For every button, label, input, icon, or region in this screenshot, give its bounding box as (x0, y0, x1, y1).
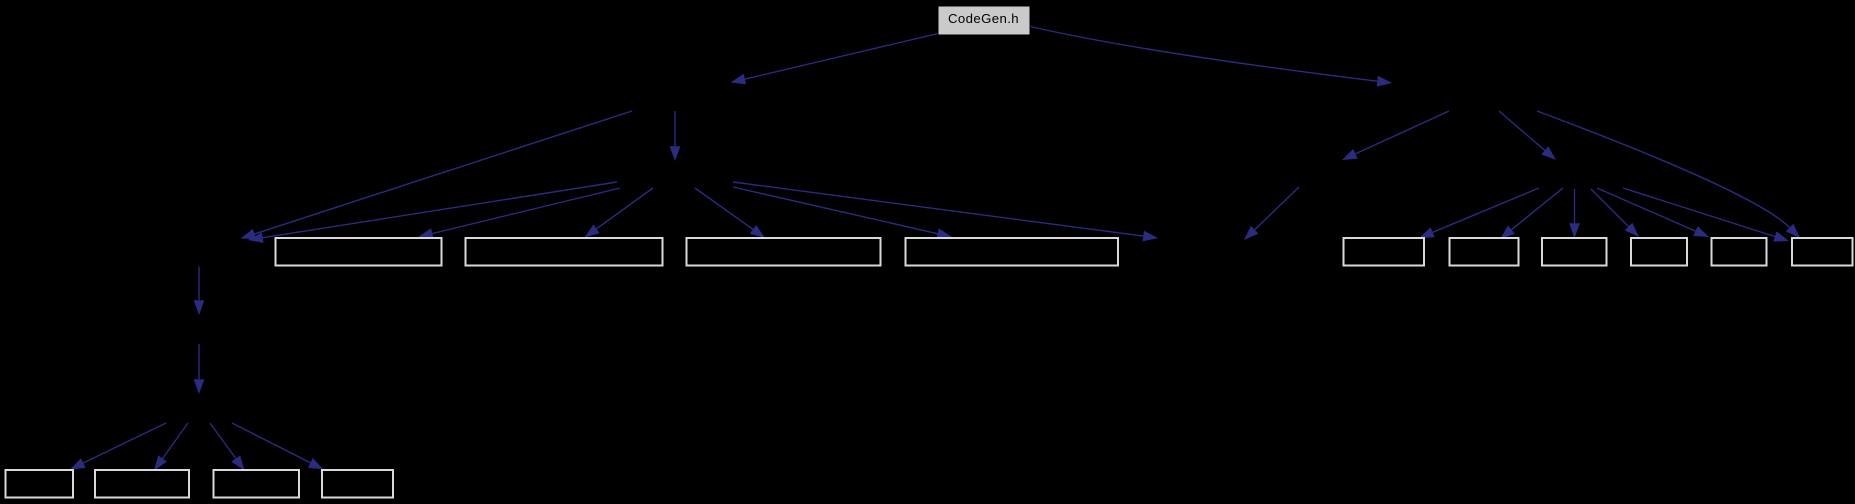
edge R1 -> M2 (1499, 111, 1556, 160)
box3 (mid row) (687, 238, 881, 266)
boxA (bottom row) (6, 470, 74, 498)
edge M2 -> boxR2 (1500, 188, 1563, 239)
boxR1 (right row) (1344, 238, 1425, 266)
edge L4 -> boxC (210, 423, 245, 471)
edge L3 -> L4 (194, 344, 205, 394)
edge M2 -> boxR5 (1597, 188, 1709, 237)
edge L4 -> boxA (70, 423, 166, 470)
edge L2 -> box3 (695, 188, 765, 238)
edge M2 -> boxR3 (1569, 189, 1580, 238)
edge L2 -> box4 (733, 187, 952, 239)
boxR4 (right row) (1631, 238, 1687, 266)
edge L1 -> node4 (241, 111, 633, 239)
edge R1 -> boxR6 (1537, 111, 1800, 238)
svg-text:CodeGen.h: CodeGen.h (948, 11, 1019, 26)
edge M2 -> boxR4 (1591, 189, 1639, 237)
edge M2 -> boxR6 (1623, 188, 1789, 242)
boxR3 (right row) (1542, 238, 1607, 266)
edge L2 -> node5 (733, 182, 1158, 241)
boxR5 (right row) (1712, 238, 1767, 266)
edge L2 -> node4 (248, 182, 617, 243)
box4 (mid row) (906, 238, 1119, 266)
edge L2 -> box2 (585, 188, 654, 238)
edge L4 -> boxD (232, 423, 324, 470)
edge CodeGen.h -> node R1 (1031, 27, 1393, 87)
boxD (bottom row) (322, 470, 393, 498)
box2 (mid row) (466, 238, 663, 266)
edge M1 -> node5 (1244, 187, 1299, 240)
node CodeGen.h (root) (938, 6, 1030, 35)
boxR6 (right row) (1792, 238, 1853, 266)
boxC (bottom row) (214, 470, 300, 498)
edge CodeGen.h -> node L1 (731, 34, 939, 85)
edge L2 -> box1 (418, 188, 620, 239)
edge node4 -> L3 (194, 267, 205, 316)
box1 (mid row) (276, 238, 442, 266)
edge M2 -> boxR1 (1419, 188, 1539, 238)
edge L1 -> L2 (670, 111, 681, 161)
boxR2 (right row) (1450, 238, 1519, 266)
boxB (bottom row) (95, 470, 189, 498)
edge L4 -> boxB (154, 423, 188, 471)
edge R1 -> M1 (1342, 111, 1449, 160)
